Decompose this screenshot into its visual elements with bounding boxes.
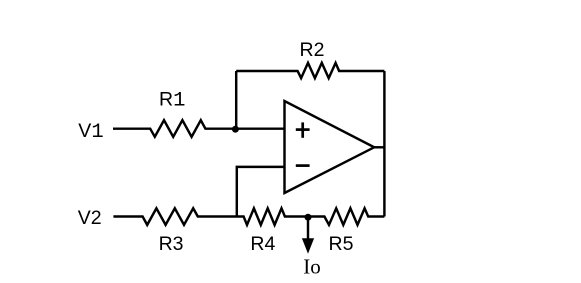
svg-text:R1: R1 [159, 89, 185, 113]
svg-text:R4: R4 [250, 233, 275, 255]
svg-text:R3: R3 [159, 233, 184, 255]
svg-text:R5: R5 [329, 233, 354, 255]
svg-text:V2: V2 [78, 207, 102, 229]
svg-text:V1: V1 [78, 120, 103, 144]
svg-text:R2: R2 [300, 39, 325, 61]
svg-text:Io: Io [303, 255, 321, 279]
